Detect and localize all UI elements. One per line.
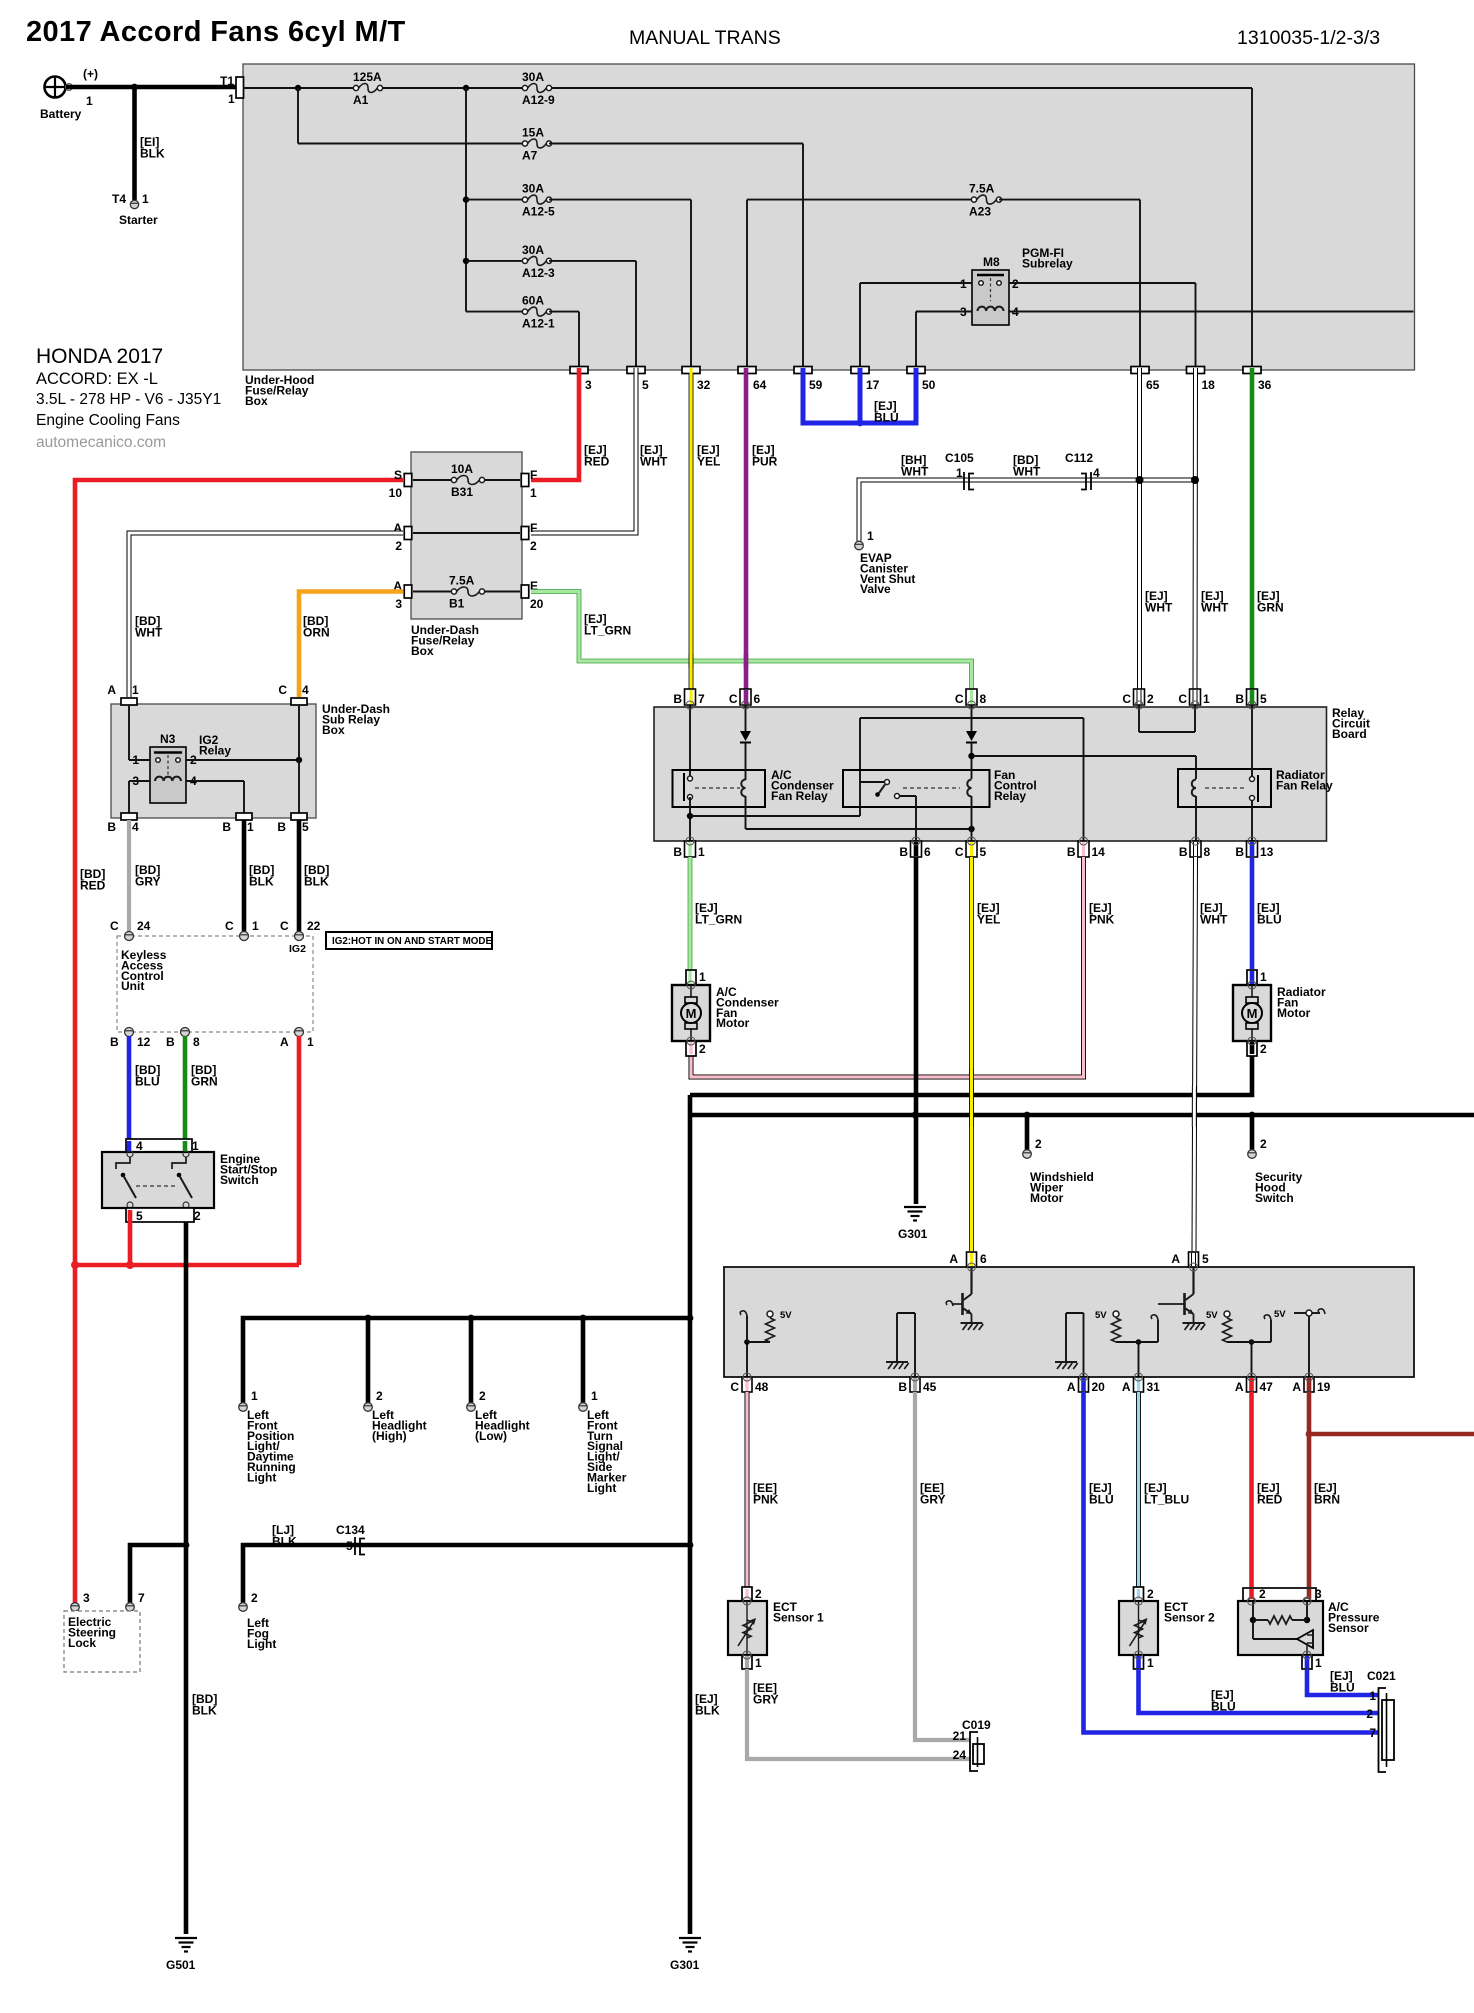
svg-text:3: 3 [585, 378, 592, 392]
wire [EJ] PNK B14 to AC fan motor pin2 [691, 857, 1084, 1077]
svg-text:1: 1 [247, 820, 254, 834]
svg-text:Lock: Lock [68, 1636, 96, 1650]
svg-text:PUR: PUR [752, 455, 778, 469]
wire [BD] BLK B1 to keyless C1 [242, 820, 247, 932]
wire [EE] GRY B45 to C019 pin 21 [915, 1392, 970, 1740]
svg-text:1: 1 [698, 845, 705, 859]
svg-text:1310035-1/2-3/3: 1310035-1/2-3/3 [1237, 27, 1380, 49]
wire IG2 pin2 to C4 line [186, 759, 299, 761]
connector A19 ECU bottom [1304, 1377, 1314, 1392]
diode at C6 [740, 731, 751, 743]
svg-text:1: 1 [142, 192, 149, 206]
svg-text:3: 3 [1315, 1587, 1322, 1601]
ECT sensor 2 [1119, 1601, 1158, 1655]
connector C48 ECU bottom [742, 1377, 752, 1392]
svg-text:4: 4 [1093, 466, 1100, 480]
node junction x299 y760 [296, 757, 302, 763]
radiator fan relay box [1178, 769, 1271, 807]
svg-text:GRY: GRY [753, 1693, 779, 1707]
svg-text:PNK: PNK [1089, 913, 1115, 927]
battery B1 (+) [45, 77, 73, 98]
node junction x466 y260.9 [463, 258, 469, 264]
svg-text:20: 20 [1092, 1380, 1106, 1394]
svg-text:Fan Relay: Fan Relay [1276, 778, 1333, 792]
svg-text:17: 17 [866, 378, 880, 392]
svg-text:B: B [899, 845, 908, 859]
electric steering lock pins [71, 1603, 80, 1612]
svg-text:Light: Light [247, 1470, 276, 1484]
wire [EJ] GRN terminal 36 to relay board B5 [1250, 373, 1255, 689]
svg-text:T1: T1 [220, 74, 234, 88]
wire M8 pin4 to box edge [1009, 311, 1414, 313]
svg-text:C: C [225, 919, 234, 933]
svg-text:A: A [1067, 1380, 1076, 1394]
ECT sensor 1 terminal 1 [742, 1655, 752, 1669]
connector A6 ECU top [967, 1252, 977, 1267]
svg-text:(+): (+) [83, 67, 98, 81]
wire stubs inside connector rects [577, 368, 582, 373]
wire [EJ] RED A47 to AC pressure sensor [1249, 1392, 1254, 1587]
svg-text:1: 1 [699, 970, 706, 984]
fuse A12-3 30A [522, 256, 551, 265]
wire BLK radiator motor pin2 to left vertical [690, 1056, 1252, 1095]
wire BLK long vertical to G301 bottom [688, 1095, 693, 1934]
svg-text:IG2:HOT IN ON AND START MODE: IG2:HOT IN ON AND START MODE [332, 936, 492, 947]
wire row1 internal [413, 479, 454, 481]
pin B 8 keyless [181, 1028, 190, 1037]
AC relay contact [688, 776, 693, 781]
svg-text:LT_BLU: LT_BLU [1144, 1493, 1189, 1507]
wire branch x466 down [465, 88, 467, 312]
wire A23 to terminal 65 [999, 199, 1140, 201]
svg-text:Unit: Unit [121, 979, 144, 993]
svg-text:6: 6 [754, 692, 761, 706]
svg-text:RED: RED [80, 879, 106, 893]
svg-text:Motor: Motor [1277, 1006, 1311, 1020]
wire RED down to steering lock pin3 [73, 1265, 78, 1603]
ground G301 mid [904, 1207, 926, 1221]
relay N3 IG2 [150, 747, 186, 803]
wire [EJ] LT_BLU A31 to ECT sensor 2 [1136, 1392, 1141, 1587]
wire [EJ] BRN A19 to AC pressure sensor pin3 [1307, 1392, 1312, 1587]
wire stub left headlight high [366, 1318, 371, 1403]
svg-text:7: 7 [1369, 1726, 1376, 1740]
connector B45 ECU bottom [910, 1377, 920, 1392]
wire [EJ] WHT B8 to ECU A5 [1194, 857, 1196, 1251]
svg-text:Sensor 1: Sensor 1 [773, 1610, 824, 1624]
terminal B 5 sub-relay bottom [291, 813, 307, 820]
svg-text:4: 4 [302, 683, 309, 697]
svg-text:2: 2 [251, 1591, 258, 1605]
terminal 65 under-hood box [1131, 367, 1149, 374]
svg-text:Starter: Starter [119, 213, 158, 227]
svg-text:21: 21 [953, 1729, 967, 1743]
A/C condenser fan relay box [673, 770, 766, 807]
wire YEL overlay at bus crossing [969, 1068, 974, 1127]
under-dash sub relay box [111, 704, 316, 818]
svg-text:BRN: BRN [1314, 1493, 1340, 1507]
wire to radiator relay coil [972, 755, 1197, 757]
left front turn signal pin 1 [579, 1403, 588, 1412]
ECU A19 5V pullup [1308, 1316, 1310, 1377]
AC pressure sensor terminal 1 [1302, 1655, 1312, 1669]
wire [EJ] WHT terminal 18 to relay board C1 [1193, 373, 1199, 689]
svg-text:A: A [1122, 1380, 1131, 1394]
wire B5 to radiator contact [1251, 705, 1253, 777]
terminal 64 under-hood box [738, 367, 756, 374]
wire C2 to C1 jumper [1138, 705, 1140, 732]
svg-text:3: 3 [83, 1591, 90, 1605]
svg-text:G301: G301 [670, 1958, 700, 1972]
wire [BH]/[BD] WHT EVAP line [859, 480, 1195, 541]
svg-text:BLK: BLK [272, 1535, 297, 1549]
svg-text:Engine Cooling Fans: Engine Cooling Fans [36, 412, 180, 429]
svg-text:(High): (High) [372, 1429, 407, 1443]
connector C112 pin 4 [1081, 472, 1091, 490]
svg-text:C: C [1178, 692, 1187, 706]
wire [EJ] WHT terminal 65 to relay board C2 [1137, 373, 1142, 689]
wire [BD] GRY B4 to keyless C24 [127, 820, 131, 932]
svg-text:6: 6 [924, 845, 931, 859]
svg-text:A12-5: A12-5 [522, 205, 555, 219]
ECU C48 input circuit [746, 1342, 748, 1377]
node battery junction [131, 84, 138, 91]
wire [EE] PNK C48 to ECT sensor 1 [745, 1392, 750, 1587]
wire [LJ] BLK fog light run [243, 1545, 690, 1603]
terminal A 3 [404, 585, 412, 598]
wire C4 to B5 [298, 705, 300, 814]
svg-text:BLK: BLK [192, 1704, 217, 1718]
svg-text:5: 5 [642, 378, 649, 392]
wire to fuse A12-1 [466, 311, 525, 313]
terminal B 1 sub-relay bottom [236, 813, 252, 820]
wire [EJ] LT_GRN E20 to relay board C8 [531, 592, 972, 690]
ECT sensor 1 terminal 2 [742, 1587, 752, 1601]
connector B8 relay board bottom [1190, 841, 1201, 857]
svg-text:BLU: BLU [1089, 1493, 1114, 1507]
AC relay coil [741, 780, 745, 797]
svg-text:WHT: WHT [1201, 601, 1229, 615]
node bus x1252 [1249, 1112, 1256, 1119]
svg-text:C134: C134 [336, 1523, 365, 1537]
svg-text:RED: RED [584, 455, 610, 469]
svg-text:2: 2 [1012, 277, 1019, 291]
switch linkage dashed [136, 1185, 178, 1187]
wire [BD] RED keyless A1 down [297, 1036, 302, 1265]
svg-text:A12-1: A12-1 [522, 317, 555, 331]
svg-text:19: 19 [1317, 1380, 1331, 1394]
connector C5 relay board bottom [966, 841, 977, 857]
svg-text:1: 1 [591, 1389, 598, 1403]
svg-text:Board: Board [1332, 727, 1367, 741]
svg-text:7: 7 [698, 692, 705, 706]
fan control relay coil [967, 780, 971, 797]
svg-text:C: C [729, 692, 738, 706]
pin A 1 keyless [295, 1028, 304, 1037]
connector A47 ECU bottom [1247, 1377, 1257, 1392]
svg-text:1: 1 [956, 466, 963, 480]
wire stub security hood switch [1250, 1115, 1255, 1150]
wire row3 internal [413, 591, 454, 593]
svg-text:A: A [107, 683, 116, 697]
fuse A12-5 30A [522, 195, 551, 204]
wire [EJ] YEL terminal 32 to relay board B7 [689, 373, 694, 689]
wire C8 through diode and coil to C5 [971, 705, 973, 731]
terminal 17 under-hood box [851, 367, 869, 374]
wire RED bottom run y1265 [75, 1263, 299, 1268]
wire BRN branch right [1309, 1432, 1474, 1437]
terminal E 20 [521, 585, 529, 598]
svg-text:2: 2 [1147, 1587, 1154, 1601]
node bus junction x466 [463, 85, 469, 91]
wire BLK steering lock pin7 [130, 1545, 186, 1603]
wire radiator contact to B13 [1251, 800, 1253, 841]
svg-text:C: C [730, 1380, 739, 1394]
svg-text:C: C [278, 683, 287, 697]
svg-text:2: 2 [376, 1389, 383, 1403]
wire terminal 64 to fuse A23 [746, 200, 748, 366]
engine control unit box [724, 1267, 1414, 1377]
wire A7 to terminal 59 [549, 143, 803, 145]
svg-text:GRN: GRN [1257, 601, 1284, 615]
svg-text:A: A [280, 1035, 289, 1049]
svg-text:45: 45 [923, 1380, 937, 1394]
svg-text:BLU: BLU [1257, 913, 1282, 927]
svg-text:2: 2 [530, 539, 537, 553]
switch pole left [116, 1151, 136, 1208]
svg-text:59: 59 [809, 378, 823, 392]
svg-text:Box: Box [322, 723, 345, 737]
svg-text:C: C [280, 919, 289, 933]
svg-text:N3: N3 [160, 732, 176, 746]
pin B 12 keyless [125, 1028, 134, 1037]
svg-text:WHT: WHT [1145, 601, 1173, 615]
wire fan control switch to B6 [915, 796, 917, 841]
wire branch x298 down [297, 88, 299, 144]
svg-text:1: 1 [1315, 1656, 1322, 1670]
electric steering lock box [64, 1611, 140, 1672]
svg-text:5V: 5V [780, 1310, 792, 1321]
wire [BD] BLU B12 to switch pin4 [127, 1036, 132, 1151]
connector B6 relay board bottom [911, 841, 922, 857]
svg-text:Box: Box [245, 394, 268, 408]
connector B5 relay board top [1247, 689, 1258, 705]
svg-text:125A: 125A [353, 70, 382, 84]
svg-text:WHT: WHT [135, 626, 163, 640]
svg-text:C112: C112 [1065, 451, 1093, 465]
svg-text:2: 2 [755, 1587, 762, 1601]
svg-text:1: 1 [530, 486, 537, 500]
fuse A7 15A [522, 139, 551, 148]
svg-text:48: 48 [755, 1380, 769, 1394]
svg-text:30A: 30A [522, 70, 544, 84]
wire BLK switch pin2 to G501 [184, 1222, 189, 1934]
svg-text:47: 47 [1260, 1380, 1274, 1394]
svg-text:M: M [1247, 1006, 1258, 1021]
terminal F 2 [521, 527, 529, 540]
wire BLK B6 to ground G301 [914, 857, 919, 1204]
svg-text:2: 2 [1366, 1707, 1373, 1721]
svg-text:B: B [277, 820, 286, 834]
wire to starter [EI] BLK [132, 87, 137, 200]
A/C condenser fan motor terminal 2 [686, 1041, 696, 1056]
ground G301 bottom [679, 1938, 701, 1952]
svg-text:24: 24 [137, 919, 151, 933]
wire to fuse A7 [298, 143, 525, 145]
EVAP Canister Vent Shut Valve pin 1 [855, 541, 864, 550]
terminal C 4 sub-relay top [291, 698, 307, 705]
note IG2 HOT IN ON AND START MODE [326, 932, 492, 949]
connector C8 relay board top [966, 689, 977, 705]
svg-text:1: 1 [228, 92, 235, 106]
svg-text:2: 2 [1035, 1137, 1042, 1151]
node junction x466 y199.6 [463, 196, 469, 202]
svg-text:RED: RED [1257, 1493, 1283, 1507]
node bus x583 [580, 1315, 587, 1322]
wire [EJ] BLU B13 to radiator fan motor [1250, 857, 1255, 969]
svg-text:Light: Light [247, 1637, 276, 1651]
diode at C8 [966, 731, 977, 743]
AC pressure sensor internals [1252, 1601, 1254, 1620]
svg-text:30A: 30A [522, 182, 544, 196]
node red junction x130 [126, 1261, 134, 1269]
terminal 32 under-hood box [682, 367, 700, 374]
svg-text:A: A [949, 1252, 958, 1266]
connector B1 relay board bottom [685, 841, 696, 857]
svg-text:1: 1 [252, 919, 259, 933]
svg-text:BLK: BLK [140, 147, 165, 161]
svg-text:8: 8 [193, 1035, 200, 1049]
under-hood fuse/relay box [243, 64, 1415, 370]
svg-text:2: 2 [395, 539, 402, 553]
svg-text:F: F [530, 521, 537, 535]
wire YEL overlay at lt-grn crossing [689, 654, 694, 668]
under-dash fuse/relay box [411, 452, 522, 619]
pin C 1 keyless [240, 932, 249, 941]
ECT sensor 1 [728, 1601, 767, 1655]
node EVAP line to terminal-65 wire [1136, 476, 1144, 484]
svg-text:C: C [955, 845, 964, 859]
radiator fan motor terminal 2 [1247, 1041, 1257, 1056]
radiator relay coil [1192, 780, 1196, 797]
wire IG2 pin3 to B4 [129, 780, 150, 782]
connector T1 pin 1 [236, 77, 244, 98]
svg-text:BLU: BLU [135, 1075, 160, 1089]
ground G501 [175, 1938, 197, 1952]
AC pressure sensor connector [1243, 1588, 1316, 1601]
svg-text:2017 Accord Fans 6cyl M/T: 2017 Accord Fans 6cyl M/T [26, 16, 406, 48]
fuse A12-9 30A [522, 84, 551, 93]
svg-text:1: 1 [755, 1656, 762, 1670]
wire [EJ] PUR terminal 64 to relay board C6 [744, 373, 749, 689]
fan control relay box [843, 770, 990, 807]
svg-text:32: 32 [697, 378, 711, 392]
fuse B1 7.5A [451, 587, 484, 596]
terminal 50 under-hood box [907, 367, 925, 374]
svg-text:A: A [1171, 1252, 1180, 1266]
wire [EJ] BLU ECT2 to C021 pin 2 [1139, 1669, 1379, 1713]
terminal A 2 [404, 527, 412, 540]
radiator fan motor terminal 1 [1247, 970, 1257, 985]
svg-text:2: 2 [194, 1209, 201, 1223]
svg-text:A12-9: A12-9 [522, 93, 555, 107]
wire [EE] GRY ECT1 to C019 pin 24 [747, 1669, 970, 1759]
wire RED switch pin5 down [128, 1210, 133, 1265]
wire AC coil bottom to C5 node [745, 796, 747, 829]
svg-text:12: 12 [137, 1035, 151, 1049]
svg-text:10: 10 [389, 486, 403, 500]
svg-text:A: A [1235, 1380, 1244, 1394]
svg-text:Relay: Relay [994, 789, 1026, 803]
pin C 24 keyless [125, 932, 134, 941]
svg-text:3: 3 [395, 597, 402, 611]
svg-text:B: B [222, 820, 231, 834]
svg-text:B: B [1179, 845, 1188, 859]
svg-text:A7: A7 [522, 149, 538, 163]
windshield wiper motor pin 2 [1023, 1150, 1032, 1159]
svg-text:GRY: GRY [920, 1493, 946, 1507]
svg-text:5V: 5V [1095, 1310, 1107, 1321]
svg-text:ORN: ORN [303, 626, 330, 640]
engine start/stop switch box [102, 1152, 214, 1208]
svg-text:20: 20 [530, 597, 544, 611]
fuse A1 125A [353, 84, 382, 93]
svg-text:BLU: BLU [1211, 1700, 1236, 1714]
svg-text:C019: C019 [962, 1718, 991, 1732]
connector A5 ECU top [1189, 1252, 1199, 1267]
svg-text:2: 2 [1147, 692, 1154, 706]
terminal 18 under-hood box [1187, 367, 1205, 374]
svg-text:1: 1 [867, 529, 874, 543]
svg-text:2: 2 [1260, 1042, 1267, 1056]
wire AC contact to B1 and B14 feed [689, 797, 691, 841]
fuse B31 10A [451, 476, 484, 485]
svg-text:1: 1 [960, 277, 967, 291]
connector B14 relay board bottom [1078, 841, 1089, 857]
svg-text:Fan Relay: Fan Relay [771, 789, 828, 803]
svg-text:1: 1 [1369, 1689, 1376, 1703]
connector C105 pin 1 [964, 472, 974, 490]
wire BLK main ground bus [690, 1113, 1474, 1118]
ECU A47 input circuit [1251, 1342, 1253, 1377]
svg-text:31: 31 [1147, 1380, 1161, 1394]
svg-text:5: 5 [980, 845, 987, 859]
svg-text:1: 1 [132, 683, 139, 697]
svg-text:Sensor: Sensor [1328, 1621, 1369, 1635]
svg-text:A1: A1 [353, 93, 369, 107]
svg-text:1: 1 [86, 94, 93, 108]
svg-text:YEL: YEL [977, 913, 1000, 927]
svg-text:65: 65 [1146, 378, 1160, 392]
svg-text:BLU: BLU [1330, 1681, 1355, 1695]
node EVAP line to terminal-18 wire [1191, 476, 1199, 484]
svg-text:1: 1 [1147, 1656, 1154, 1670]
left headlight low pin 2 [467, 1403, 476, 1412]
svg-text:Relay: Relay [199, 743, 231, 757]
svg-text:A23: A23 [969, 205, 991, 219]
left front position light pin 1 [239, 1403, 248, 1412]
terminal F 1 [521, 474, 529, 487]
svg-text:5V: 5V [1206, 1310, 1218, 1321]
svg-text:B: B [898, 1380, 907, 1394]
wire [BD] BLK B5 to keyless C22 [297, 820, 302, 932]
svg-text:5: 5 [1260, 692, 1267, 706]
wire [BD] WHT A2 to sub-relay A1 [129, 533, 403, 697]
terminal 3 under-hood box [570, 367, 588, 374]
wire row2 internal [413, 532, 520, 534]
svg-text:Motor: Motor [1030, 1191, 1064, 1205]
svg-text:M8: M8 [983, 255, 1000, 269]
